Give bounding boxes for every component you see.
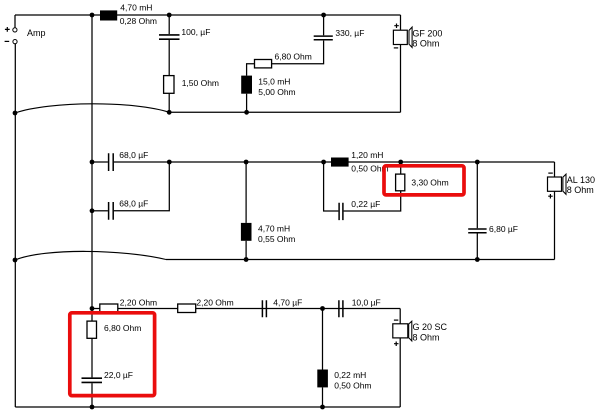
node R6C9 / bottom return xyxy=(90,405,95,410)
label + (GF200) xyxy=(394,24,399,29)
node L5 / bottom return xyxy=(320,405,325,410)
svg-text:22,0 µF: 22,0 µF xyxy=(104,370,133,380)
node L2 / return rail xyxy=(244,110,249,115)
speaker U2 AL 130 xyxy=(554,162,556,177)
svg-text:10,0 µF: 10,0 µF xyxy=(352,298,381,308)
node L3 left / C5 xyxy=(321,160,326,165)
capacitor C3 68.0µF xyxy=(92,161,108,163)
wire return hop arc over bus xyxy=(15,104,169,113)
svg-text:330, µF: 330, µF xyxy=(335,28,364,38)
label + (amp) xyxy=(5,27,10,32)
label - (GF200) xyxy=(394,47,398,49)
capacitor C7 4.70µF xyxy=(262,300,266,317)
node mid rail / L4 xyxy=(244,160,249,165)
svg-text:8 Ohm: 8 Ohm xyxy=(412,38,439,48)
inductor L3 1.20mH 0.50Ohm xyxy=(331,158,349,167)
label - (AL130) xyxy=(548,172,553,174)
svg-text:4,70 mH: 4,70 mH xyxy=(120,3,152,13)
svg-text:15,0 mH: 15,0 mH xyxy=(258,76,290,86)
svg-text:8 Ohm: 8 Ohm xyxy=(413,332,440,342)
node return / left bus xyxy=(13,111,18,116)
svg-text:6,80 Ohm: 6,80 Ohm xyxy=(104,323,141,333)
node bus / bottom rail xyxy=(90,306,95,311)
wire mid return rail xyxy=(166,259,555,261)
node L1 / C1 branch xyxy=(167,13,172,18)
node L4 / mid return xyxy=(244,257,249,262)
svg-text:0,22 mH: 0,22 mH xyxy=(334,370,366,380)
svg-text:GF 200: GF 200 xyxy=(412,28,442,38)
inductor L4 4.70mH 0.55Ohm xyxy=(245,162,247,223)
node bus / top rail xyxy=(90,13,95,18)
speaker U3 G 20 SC xyxy=(399,309,401,324)
wire main positive bus vertical xyxy=(91,15,93,309)
svg-text:6,80 Ohm: 6,80 Ohm xyxy=(275,51,312,61)
svg-text:3,30 Ohm: 3,30 Ohm xyxy=(411,177,448,187)
inductor L2 15.0mH 5.00Ohm xyxy=(241,76,252,94)
node mid return / left bus xyxy=(13,258,18,263)
label - (G20SC) xyxy=(394,319,398,321)
terminal Amp - xyxy=(13,40,17,44)
capacitor C2 330µF xyxy=(323,15,325,35)
capacitor C9 22.0µF xyxy=(82,378,103,382)
svg-text:G 20 SC: G 20 SC xyxy=(413,322,448,332)
node C2 330µF top xyxy=(321,13,326,18)
svg-text:Amp: Amp xyxy=(27,28,46,38)
highlight box red around R6 C9 xyxy=(70,313,155,396)
node bottom rail / L5 xyxy=(320,306,325,311)
resistor R1 1.50 Ohm xyxy=(164,76,174,94)
wire amp negative bus (left vertical) xyxy=(14,44,16,407)
wire top positive rail xyxy=(15,14,401,16)
svg-text:6,80 µF: 6,80 µF xyxy=(489,224,518,234)
svg-text:8 Ohm: 8 Ohm xyxy=(567,185,594,195)
capacitor C6 6.80µF xyxy=(476,162,478,228)
svg-text:0,28 Ohm: 0,28 Ohm xyxy=(120,16,157,26)
wire mid rail xyxy=(169,161,554,163)
label + (G20SC) xyxy=(394,342,399,347)
svg-text:1,20 mH: 1,20 mH xyxy=(351,150,383,160)
inductor L1 4.70mH 0.28Ohm xyxy=(100,10,117,20)
wire bottom return rail xyxy=(15,406,400,408)
node C6 / mid return xyxy=(475,257,480,262)
wire top return rail xyxy=(169,111,400,113)
capacitor C5 0.22µF xyxy=(324,162,339,211)
node C3/C4 join xyxy=(167,160,172,165)
svg-text:0,55 Ohm: 0,55 Ohm xyxy=(258,234,295,244)
svg-text:AL 130: AL 130 xyxy=(567,175,595,185)
svg-text:4,70 mH: 4,70 mH xyxy=(258,224,290,234)
resistor R2 6.80 Ohm xyxy=(255,60,272,68)
node bus / mid rail xyxy=(90,160,95,165)
svg-text:100, µF: 100, µF xyxy=(181,27,210,37)
capacitor C4 68.0µF xyxy=(92,210,108,212)
highlight box red around R3 xyxy=(384,166,464,195)
svg-text:0,50 Ohm: 0,50 Ohm xyxy=(334,381,371,391)
inductor L5 0.22mH 0.50Ohm xyxy=(322,309,324,370)
svg-text:68,0 µF: 68,0 µF xyxy=(119,150,148,160)
node mid rail / C6 xyxy=(475,160,480,165)
terminal Amp + xyxy=(13,28,17,32)
node R1 / return rail xyxy=(167,110,172,115)
node L3 right / R3 xyxy=(398,160,403,165)
capacitor C1 100µF branch xyxy=(168,15,170,34)
wire bottom rail xyxy=(92,308,400,310)
resistor R3 3.30 Ohm xyxy=(400,162,402,174)
resistor R4 2.20 Ohm xyxy=(100,304,118,313)
capacitor C8 10.0µF xyxy=(339,300,343,317)
svg-text:5,00 Ohm: 5,00 Ohm xyxy=(258,87,295,97)
wire mid return hop arc over bus xyxy=(15,251,166,260)
label - (amp) xyxy=(5,40,10,42)
svg-text:2,20 Ohm: 2,20 Ohm xyxy=(196,298,233,308)
svg-text:68,0 µF: 68,0 µF xyxy=(119,199,148,209)
node bus / C4 xyxy=(90,208,95,213)
svg-text:2,20 Ohm: 2,20 Ohm xyxy=(120,298,157,308)
svg-text:0,22 µF: 0,22 µF xyxy=(351,199,380,209)
wire amp plus lead xyxy=(14,15,16,28)
resistor R6 6.80 Ohm xyxy=(91,309,93,322)
speaker U1 GF 200 xyxy=(400,15,402,30)
svg-text:1,50 Ohm: 1,50 Ohm xyxy=(182,78,219,88)
label + (AL130) xyxy=(548,194,553,199)
resistor R5 2.20 Ohm xyxy=(178,304,196,313)
svg-text:4,70 µF: 4,70 µF xyxy=(273,298,302,308)
